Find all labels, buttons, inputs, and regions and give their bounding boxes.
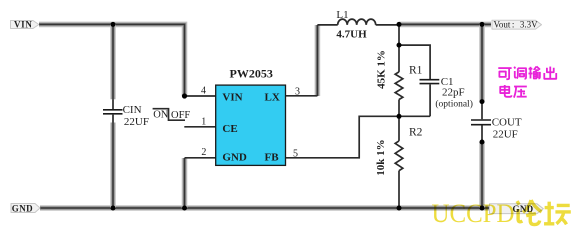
svg-text:10k 1%: 10k 1% <box>375 139 387 175</box>
node VIN tag <box>11 19 39 29</box>
resistor R2 <box>375 116 422 208</box>
wire pin 2 (GND) horizontal <box>185 157 216 159</box>
svg-text:4: 4 <box>201 85 206 96</box>
node GND tag right <box>490 204 544 214</box>
junction COUT/GND rail <box>480 206 485 211</box>
svg-text:GND: GND <box>222 152 247 164</box>
wire GND rail <box>40 205 489 211</box>
svg-text:VIN: VIN <box>222 91 242 103</box>
annotation 可调输出电压 (magenta) <box>498 66 556 97</box>
junction R1/R2/FB <box>397 114 402 119</box>
junction COUT top lead <box>480 99 485 104</box>
svg-text:22UF: 22UF <box>124 116 149 128</box>
svg-text:PW2053: PW2053 <box>230 66 273 80</box>
glyph 坛 <box>544 202 571 225</box>
svg-text:3: 3 <box>295 86 300 97</box>
svg-text:L1: L1 <box>336 9 348 21</box>
glyph 调 <box>514 67 526 79</box>
svg-text:COUT: COUT <box>492 117 522 129</box>
svg-text:22pF: 22pF <box>442 87 465 99</box>
junction CIN/GND rail <box>111 206 116 211</box>
svg-text:FB: FB <box>265 152 280 164</box>
junction COUT bottom lead <box>480 140 485 145</box>
wire pin 3 (LX) <box>286 95 318 97</box>
svg-text:LX: LX <box>265 91 280 103</box>
svg-text:OFF: OFF <box>171 110 190 121</box>
pin number 1 <box>201 117 206 128</box>
glyph 输 <box>528 66 540 78</box>
capacitor COUT <box>471 102 522 142</box>
wire R1 top lead from output <box>398 24 400 72</box>
svg-text:1: 1 <box>201 117 206 128</box>
pin number 5 <box>293 148 298 159</box>
wire CIN top branch <box>110 24 116 99</box>
svg-text:UCCPD: UCCPD <box>432 199 515 227</box>
svg-text:ON: ON <box>153 110 169 121</box>
glyph 电 <box>500 85 511 97</box>
pin number 3 <box>295 86 300 97</box>
switch ON/OFF symbol <box>153 109 191 121</box>
svg-text:2: 2 <box>201 147 206 158</box>
junction VIN/CIN <box>111 22 116 27</box>
capacitor C1 <box>420 76 473 116</box>
pin number 2 <box>201 147 206 158</box>
junction R2/GND rail <box>397 206 402 211</box>
junction output/COUT <box>480 22 485 27</box>
wire output rail <box>399 22 491 28</box>
glyph 出 <box>544 67 556 79</box>
wire COUT bottom branch <box>479 142 485 208</box>
wire LX riser <box>315 25 321 96</box>
IC U1 PW2053 <box>216 66 286 165</box>
wire GND pin 2 drop <box>182 158 188 208</box>
junction L1/output <box>397 22 402 27</box>
watermark UCCPD论坛 <box>432 199 571 228</box>
wire pin 1 (CE) <box>184 126 215 128</box>
svg-text:5: 5 <box>293 148 298 159</box>
svg-text:22UF: 22UF <box>493 129 518 141</box>
pin number 4 <box>201 85 206 96</box>
capacitor CIN <box>103 99 149 128</box>
junction R1/C1 top <box>397 43 402 48</box>
junction corner pin4 <box>182 93 187 98</box>
node GND tag left <box>11 204 40 214</box>
resistor R1 <box>375 50 422 116</box>
junction pin2/GND rail <box>182 206 187 211</box>
svg-text:45K 1%: 45K 1% <box>375 50 387 89</box>
glyph 可 <box>498 68 511 79</box>
wire C1 top branch <box>399 45 430 79</box>
svg-text:CE: CE <box>222 123 237 135</box>
wire FB net to divider <box>286 116 431 158</box>
glyph 压 <box>514 87 527 98</box>
inductor L1 <box>317 9 399 41</box>
wire VIN rail and drop to pin 4 <box>39 24 185 96</box>
svg-text:R1: R1 <box>409 64 423 76</box>
glyph 论 <box>517 200 542 225</box>
svg-text:4.7UH: 4.7UH <box>336 28 367 40</box>
svg-text:GND: GND <box>12 204 33 214</box>
wire CIN bottom branch <box>110 123 116 209</box>
wire COUT top branch <box>479 24 485 101</box>
node Vout tag <box>492 20 542 30</box>
svg-text:VIN: VIN <box>14 19 33 29</box>
svg-text:CIN: CIN <box>123 104 142 116</box>
svg-text:(optional): (optional) <box>435 98 472 109</box>
svg-text:R2: R2 <box>409 127 423 139</box>
wire pin 4 (VIN) <box>185 95 216 97</box>
